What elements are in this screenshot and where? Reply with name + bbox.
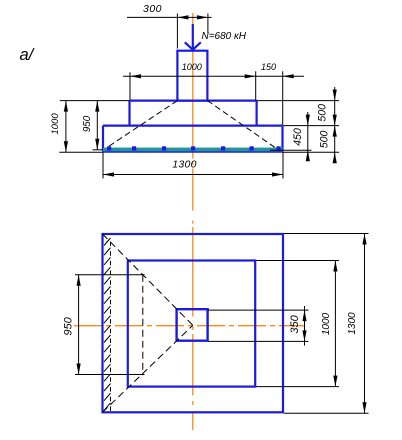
dimension 150 right arrow — [283, 74, 294, 78]
dimension 1000 line — [334, 261, 336, 387]
dimension 1000 left arrow — [130, 74, 141, 78]
extension tick at x=130 — [129, 72, 131, 100]
vertical centerline (axis of column, both views) — [192, 13, 194, 430]
step 2 left edge — [128, 101, 130, 126]
svg-text:300: 300 — [143, 3, 162, 15]
dimension 1000 plan bottom arrow — [333, 376, 337, 387]
dimension 1300 plan top arrow — [362, 234, 366, 245]
svg-text:950: 950 — [82, 115, 93, 132]
dimension 450 (right vertical) line — [307, 112, 309, 161]
dimension 500 upper (right vertical) line — [334, 87, 336, 162]
step 2 right edge — [256, 101, 258, 126]
dimension 950 (left vertical) line — [96, 101, 98, 150]
dashed vertical (pyramid trace at 950) — [142, 275, 144, 375]
dimension 1000 (left vertical) line — [65, 101, 67, 153]
dimension 350 bottom arrow — [302, 330, 306, 341]
dashed diagonal bottom-left to centre — [103, 325, 193, 412]
dimension 350 top arrow — [302, 310, 306, 321]
dimension 950 top arrow — [95, 101, 99, 112]
middle square (step 1000x1000) — [128, 261, 255, 387]
dimension 950 bottom arrow — [77, 364, 81, 375]
rebar dot 5 — [221, 146, 225, 150]
dimension 1000 bottom extension — [256, 386, 339, 388]
dimension 1300 right arrow — [272, 172, 283, 176]
dimension line 1000/150 (horizontal, y=76) — [123, 75, 304, 77]
dimension 950 bottom extension — [75, 374, 145, 376]
dimension 350 top extension — [208, 309, 309, 311]
bottom pad left edge — [102, 126, 104, 152]
dimension 300 right arrow — [197, 15, 208, 19]
dimension 500 upper bottom arrow — [333, 126, 337, 137]
dimension 1000 plan top arrow — [333, 261, 337, 272]
svg-text:1000: 1000 — [182, 62, 202, 72]
column Q (section) — [177, 51, 207, 101]
rebar dot 7 — [277, 146, 281, 150]
dimension 500 lower top arrow — [333, 115, 337, 126]
small square (column 350x350) — [177, 309, 208, 341]
svg-text:150: 150 — [261, 62, 276, 72]
svg-text:а/: а/ — [20, 46, 35, 64]
footing bottom line (blue) — [103, 151, 283, 153]
svg-text:950: 950 — [63, 316, 75, 335]
dimension 1300 extension right — [282, 153, 284, 179]
dimension 450 bottom arrow (outside) — [306, 150, 310, 161]
dimension 950 top arrow — [77, 275, 81, 286]
pressure spread dashed line left — [107, 101, 177, 148]
dimension 1000 left top arrow — [64, 101, 68, 112]
dashed diagonal top-left to centre — [103, 234, 193, 325]
svg-text:500: 500 — [318, 130, 330, 148]
rebar dot 3 — [162, 146, 166, 150]
dimension 1000 left bottom arrow — [64, 141, 68, 152]
svg-text:450: 450 — [292, 128, 304, 146]
dimension 1300 plan line — [364, 234, 366, 414]
dimension 1300 left arrow — [103, 172, 114, 176]
dimension 500 lower bottom arrow — [333, 152, 337, 163]
extension line right for 450 bottom (y=150.2) — [270, 149, 312, 151]
dimension 1000 right arrow / 150 left arrow — [245, 74, 256, 78]
rebar dot 2 — [132, 146, 136, 150]
dimension 350 bottom extension — [208, 340, 309, 342]
dimension 450 top arrow (outside) — [306, 115, 310, 126]
dimension 950 line — [78, 275, 80, 375]
rebar dot 1 — [107, 146, 111, 150]
dimension 1300 line — [103, 174, 283, 176]
dimension 300 right extension tick — [207, 14, 209, 34]
svg-text:1000: 1000 — [321, 312, 332, 335]
ground/extension line left (y=100.6) — [60, 100, 130, 102]
dimension 500 upper top arrow — [333, 90, 337, 101]
dimension 950 (plan left) top extension — [75, 274, 145, 276]
dimension 1300 (section bottom) extension left — [102, 153, 104, 179]
extension line left bottom (y=152.2) — [59, 151, 103, 153]
outer square (footing base 1300x1300) — [103, 234, 284, 412]
svg-text:350: 350 — [289, 314, 301, 333]
pressure spread dashed line right — [207, 101, 275, 148]
dimension 300 left extension tick — [176, 14, 178, 49]
extension line left for 950 bottom (y=149.8) — [93, 149, 104, 151]
extension line right bottom (y=152.3) — [283, 151, 340, 153]
rebar dot 4 — [191, 146, 195, 150]
extension tick at x=282.7 — [282, 71, 284, 125]
svg-text:1300: 1300 — [347, 312, 358, 335]
hatching along left edge — [104, 238, 111, 411]
extension line right mid (y=125.6) — [283, 125, 339, 127]
rebar dot 6 — [250, 146, 254, 150]
concrete bedding strip (teal) — [103, 148, 283, 152]
dimension 1000 (plan) top extension — [256, 260, 339, 262]
bottom pad top edge — [103, 124, 283, 126]
svg-text:1000: 1000 — [50, 113, 61, 135]
load arrow N (blue) — [185, 24, 201, 50]
extension tick at x=255.7 — [255, 71, 257, 100]
dimension 300 (top) line — [127, 16, 212, 18]
dimension 1300 (plan) top extension — [284, 233, 369, 235]
step 2 top edge — [130, 99, 257, 101]
extension line right upper (y=100.6) — [257, 100, 339, 102]
horizontal centerline of plan view — [74, 325, 304, 327]
dimension 300 left arrow — [177, 15, 188, 19]
bottom pad right edge — [281, 126, 283, 152]
dimension 1300 bottom extension — [284, 412, 369, 414]
dimension 950 bottom arrow — [95, 139, 99, 150]
svg-text:1300: 1300 — [172, 158, 197, 170]
dimension 1300 plan bottom arrow — [362, 402, 366, 413]
svg-text:500: 500 — [316, 104, 328, 122]
dimension 350 line — [304, 306, 306, 346]
